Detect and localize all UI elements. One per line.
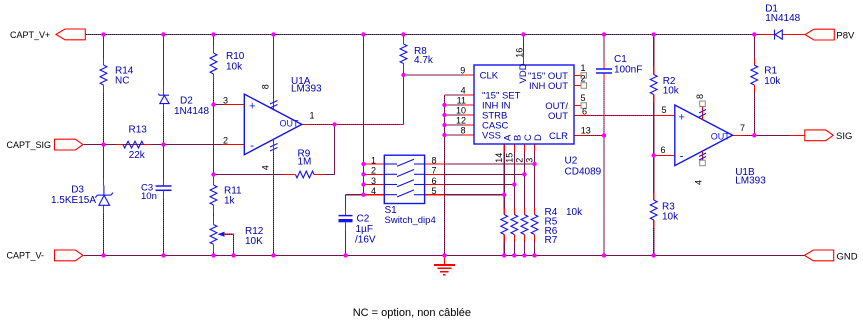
wire SIG node to port	[754, 134, 789, 136]
junction bottom rail	[522, 253, 526, 257]
svg-text:1M: 1M	[298, 157, 312, 168]
svg-text:CLR: CLR	[549, 131, 568, 142]
wire CLK row	[404, 74, 464, 76]
svg-text:OUT: OUT	[548, 111, 568, 122]
wire output node down to R9	[334, 124, 336, 174]
junction top rail	[752, 32, 756, 36]
wire V+ to D2	[163, 34, 165, 86]
resistor R6	[521, 215, 528, 235]
wire V+ to U2 pin16	[523, 34, 525, 55]
U2 CD4089 box	[474, 65, 574, 144]
svg-text:NC = option, non câblée: NC = option, non câblée	[353, 307, 471, 319]
junction bottom rail	[442, 253, 446, 257]
U1B pin4 no-connect	[700, 160, 706, 166]
wire V+ to R2	[653, 34, 655, 67]
svg-text:8: 8	[261, 84, 271, 89]
svg-text:1: 1	[310, 111, 315, 121]
wire switch pin8 link	[425, 163, 444, 165]
port GND	[804, 250, 833, 261]
wire C1 to CLR node	[603, 73, 605, 80]
svg-text:10: 10	[456, 106, 466, 116]
junction bottom rail	[602, 253, 606, 257]
junction top rail	[271, 32, 275, 36]
svg-text:1: 1	[371, 155, 376, 165]
junction bottom rail	[211, 253, 215, 257]
svg-text:/16V: /16V	[355, 235, 376, 246]
svg-text:2: 2	[371, 166, 376, 176]
wire U1B pin6 stub	[654, 154, 675, 156]
svg-text:CAPT_SIG: CAPT_SIG	[7, 140, 52, 150]
wire U1A pin3 stub	[214, 104, 225, 106]
svg-text:10k: 10k	[663, 86, 680, 97]
wire switch pin6 link	[425, 184, 444, 186]
wire R2 to pin6 node	[653, 95, 655, 102]
wire pin6 node to R3	[653, 155, 655, 193]
wire U1A output	[302, 123, 310, 125]
op-amp U1B	[675, 105, 733, 166]
wire R3 to ground rail	[653, 220, 655, 227]
wire V+ to R1	[753, 34, 755, 58]
junction switch link	[522, 172, 526, 176]
svg-text:1N4148: 1N4148	[174, 106, 209, 117]
svg-text:GND: GND	[837, 251, 858, 262]
junction switch bracket	[361, 182, 365, 186]
capacitor C3	[163, 179, 165, 187]
wire CLR node to ground rail	[603, 136, 605, 256]
svg-text:LM393: LM393	[735, 175, 766, 186]
wire switch common to C2	[346, 194, 364, 196]
port SIG	[805, 130, 833, 141]
wire V+ to R10	[213, 34, 215, 46]
diode D2	[163, 86, 165, 95]
svg-text:7: 7	[432, 166, 437, 176]
wire C2 column top	[345, 195, 347, 209]
svg-text:LM393: LM393	[291, 84, 322, 95]
junction top rail	[652, 32, 656, 36]
resistor R9	[296, 171, 315, 178]
svg-text:7: 7	[740, 123, 745, 133]
svg-text:15: 15	[504, 153, 514, 163]
svg-text:+: +	[679, 112, 685, 124]
resistor R4	[501, 215, 508, 235]
svg-text:6: 6	[432, 176, 437, 186]
junction U1B pin6	[652, 153, 656, 157]
wire C2 column bottom	[345, 230, 347, 256]
wire switch pin7 link	[425, 173, 444, 175]
wire V+ to R14	[103, 34, 105, 58]
svg-text:5: 5	[580, 93, 585, 103]
wire R11 to R12	[213, 212, 215, 218]
svg-text:10n: 10n	[141, 191, 157, 202]
junction top rail	[211, 32, 215, 36]
resistor R12 potentiometer	[213, 218, 215, 225]
svg-text:D: D	[533, 134, 544, 141]
wire switch pin4 stub	[365, 194, 385, 196]
svg-text:CLK: CLK	[480, 71, 499, 82]
wire R9 feedback row	[214, 174, 283, 176]
U2 pin 2 no-connect	[574, 85, 581, 87]
wire U2 gnd bracket vertical	[444, 95, 446, 255]
svg-text:10k: 10k	[662, 211, 679, 222]
junction switch bracket	[361, 193, 365, 197]
port CAPT_SIG	[55, 139, 83, 150]
resistor R14	[103, 58, 105, 65]
svg-text:10k: 10k	[226, 61, 243, 72]
resistor R5	[511, 215, 518, 235]
wire D2 to SIG rail	[163, 112, 165, 145]
svg-text:Switch_dip4: Switch_dip4	[385, 215, 436, 226]
svg-text:NC: NC	[115, 76, 129, 87]
junction bias pin3	[211, 102, 215, 106]
op-amp U1A	[244, 94, 301, 155]
wire R9 left stub	[283, 174, 296, 176]
resistor R8	[403, 38, 405, 44]
U1A pin4 power marks	[270, 144, 278, 148]
svg-text:1.5KE15A: 1.5KE15A	[51, 195, 96, 206]
wire U2 pin10 row	[445, 114, 464, 116]
svg-text:3: 3	[223, 95, 228, 105]
junction bottom rail	[271, 253, 275, 257]
wire U2 OUT to U1B pin5	[574, 115, 584, 117]
junction switch link	[502, 193, 506, 197]
svg-text:2: 2	[514, 158, 524, 163]
svg-text:8: 8	[461, 126, 466, 136]
wire U2 bottom pin column 3	[523, 144, 525, 152]
svg-text:C2: C2	[357, 213, 370, 224]
wire SIG rail to D3	[103, 145, 105, 178]
svg-text:10k: 10k	[764, 76, 781, 87]
wire R9 right stub	[314, 174, 325, 176]
wire V+ to R8	[403, 34, 405, 38]
resistor R13	[104, 144, 117, 146]
resistor R11	[213, 178, 215, 185]
diode D3 TVS	[103, 178, 105, 186]
svg-text:4: 4	[261, 165, 271, 170]
svg-text:CAPT_V-: CAPT_V-	[7, 251, 45, 261]
wire U1A pin4 to ground rail	[273, 151, 275, 255]
junction bottom rail	[101, 253, 105, 257]
wire output up to CLK node	[403, 75, 405, 124]
ground	[444, 255, 446, 265]
wire ground bottom rail	[83, 254, 804, 256]
svg-text:4: 4	[694, 180, 704, 185]
junction top rail	[361, 32, 365, 36]
wire R1 to SIG node	[753, 85, 755, 92]
resistor R1	[753, 64, 755, 66]
svg-text:10k: 10k	[566, 207, 583, 218]
svg-text:U2: U2	[565, 156, 578, 167]
svg-text:16: 16	[515, 48, 525, 58]
svg-text:6: 6	[660, 145, 665, 155]
U2 pin 5 no-connect	[574, 105, 581, 107]
junction U2 gnd bracket	[442, 103, 446, 107]
svg-text:13: 13	[581, 125, 591, 135]
svg-text:CD4089: CD4089	[565, 167, 602, 178]
wire switch pin1 stub	[365, 163, 385, 165]
svg-text:VSS: VSS	[482, 131, 501, 142]
svg-text:1µF: 1µF	[356, 224, 373, 235]
svg-text:100nF: 100nF	[614, 65, 642, 76]
junction switch bracket	[361, 172, 365, 176]
svg-text:4: 4	[461, 86, 466, 96]
svg-text:9: 9	[460, 66, 465, 76]
wire R10 to node bias	[213, 81, 215, 105]
junction bottom rail	[161, 253, 165, 257]
junction U1A out	[332, 122, 336, 126]
wire D3 to ground rail	[103, 213, 105, 255]
junction top rail	[602, 32, 606, 36]
junction switch link	[532, 162, 536, 166]
switch S1 dip4	[384, 155, 424, 203]
svg-text:R7: R7	[545, 235, 558, 246]
junction top rail	[401, 32, 405, 36]
svg-text:CAPT_V+: CAPT_V+	[10, 30, 50, 40]
svg-text:3: 3	[371, 176, 376, 186]
svg-text:-: -	[680, 149, 684, 163]
svg-text:4: 4	[371, 186, 376, 196]
svg-text:-: -	[250, 138, 254, 152]
svg-text:6: 6	[582, 106, 587, 116]
svg-text:2: 2	[580, 73, 585, 83]
U2 pin 1 no-connect	[574, 74, 581, 76]
wire switch pin2 stub	[365, 173, 385, 175]
svg-text:4.7k: 4.7k	[414, 55, 434, 66]
svg-text:10K: 10K	[245, 236, 263, 247]
junction switch bracket	[361, 162, 365, 166]
wire R12 to ground rail	[213, 251, 215, 255]
wire switch pin5 link	[425, 194, 444, 196]
wire U2 bottom pin column 2	[513, 144, 515, 152]
junction bottom rail	[343, 253, 347, 257]
junction bottom rail	[231, 253, 235, 257]
svg-text:2: 2	[223, 135, 228, 145]
wire CAPT_SIG rail	[83, 144, 222, 146]
junction bottom rail	[652, 253, 656, 257]
svg-text:1N4148: 1N4148	[765, 13, 800, 24]
junction U1B out	[752, 133, 756, 137]
junction U2 gnd bracket	[442, 133, 446, 137]
svg-text:8: 8	[695, 94, 705, 99]
svg-text:14: 14	[494, 153, 504, 163]
svg-text:11: 11	[457, 96, 466, 106]
wire node to R11	[213, 175, 215, 179]
junction CLK node	[401, 73, 405, 77]
wire U2 bottom pin column 4	[534, 144, 536, 152]
junction SIG rail	[101, 142, 105, 146]
junction top rail	[101, 32, 105, 36]
junction U2 gnd bracket	[442, 113, 446, 117]
svg-text:OUT: OUT	[711, 131, 731, 141]
svg-text:SIG: SIG	[836, 131, 852, 142]
resistor R7	[531, 215, 538, 235]
resistor R3	[650, 200, 657, 220]
junction top rail	[521, 32, 525, 36]
wire R8 bottom stub	[403, 64, 405, 71]
junction SIG rail	[161, 142, 165, 146]
wire D1 to P8V port	[782, 33, 805, 35]
wire switch pin3 stub	[365, 184, 385, 186]
wire V+ top rail	[85, 33, 755, 35]
wire V+ to U1A pin8	[273, 34, 275, 98]
svg-text:1k: 1k	[224, 196, 236, 207]
wire U1B pin7 out	[733, 134, 744, 136]
svg-text:8: 8	[432, 155, 437, 165]
junction bottom rail	[512, 253, 516, 257]
svg-text:OUT: OUT	[280, 119, 300, 129]
svg-text:5: 5	[661, 105, 666, 115]
svg-text:12: 12	[456, 116, 466, 126]
svg-text:3: 3	[525, 158, 535, 163]
wire U2 pin8 row	[445, 134, 464, 136]
U1A pin8 power marks	[270, 101, 278, 105]
junction CLR C1	[602, 133, 606, 137]
wire V+ bracket to switch	[363, 34, 365, 194]
port CAPT_V+	[56, 29, 85, 40]
U1B pin8 no-connect	[700, 101, 706, 107]
svg-text:INH OUT: INH OUT	[529, 81, 568, 92]
junction bottom rail	[502, 253, 506, 257]
svg-text:R13: R13	[129, 125, 148, 136]
svg-text:5: 5	[432, 186, 437, 196]
capacitor C1	[596, 68, 612, 70]
junction top rail	[161, 32, 165, 36]
wire U2 bottom pin column 1	[503, 144, 505, 152]
svg-text:D3: D3	[71, 184, 84, 195]
port P8V	[805, 29, 834, 40]
svg-text:C1: C1	[614, 54, 627, 65]
wire C3 to ground rail	[163, 198, 165, 255]
wire U2 pin4 row	[445, 94, 464, 96]
wire U2 pin11 row	[445, 104, 464, 106]
junction switch link	[512, 182, 516, 186]
diode D1	[774, 30, 776, 40]
svg-text:1: 1	[580, 63, 585, 73]
junction bottom rail	[532, 253, 536, 257]
port CAPT_V-	[55, 250, 83, 261]
svg-text:22k: 22k	[129, 150, 146, 161]
wire bias node down	[213, 105, 215, 175]
resistor R2	[650, 75, 657, 95]
resistor R10	[213, 46, 215, 53]
junction U2 gnd bracket	[442, 123, 446, 127]
wire R14 to SIG rail	[103, 92, 105, 145]
junction bias R9	[211, 172, 215, 176]
svg-text:P8V: P8V	[836, 31, 855, 42]
wire U2 pin12 row	[445, 124, 464, 126]
wire V+ to C1	[603, 34, 605, 62]
capacitor C2	[345, 209, 347, 216]
svg-text:+: +	[249, 100, 255, 112]
wire SIG rail to C3	[163, 145, 165, 179]
wire rail to D1	[754, 33, 762, 35]
wire U1A pin2 stub	[222, 144, 244, 146]
wire U2 CLR row	[574, 135, 584, 137]
